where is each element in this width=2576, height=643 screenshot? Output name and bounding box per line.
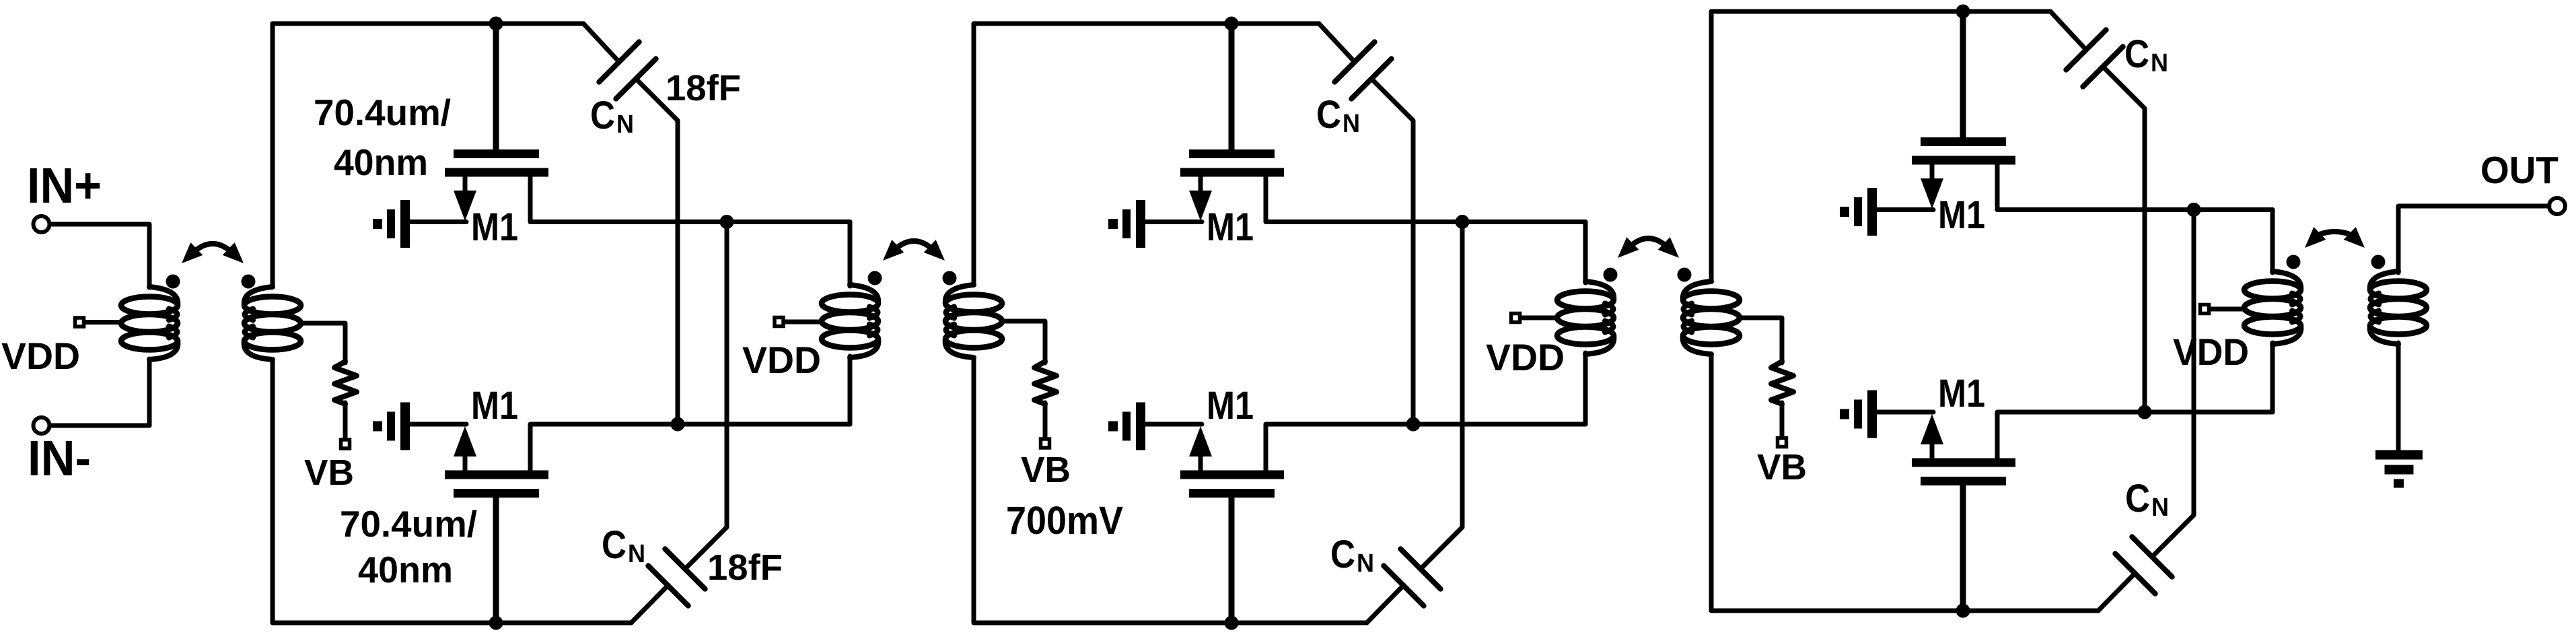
- polarity dot T1 secondary: [943, 271, 957, 285]
- coupling arrow T1: [898, 241, 930, 247]
- AC-ground bias symbol (stage 3 lower): [1840, 409, 1849, 419]
- svg-text:M1: M1: [471, 384, 518, 428]
- terminal VB (stage 3): [1778, 438, 1787, 447]
- svg-text:N: N: [1357, 549, 1374, 578]
- wire drain of M1 (stage 1 lower): [530, 424, 850, 471]
- wire T0 secondary tap to bias resistor: [301, 323, 345, 363]
- junction C_N lower to upper drain (stage 1): [720, 215, 734, 229]
- terminal VDD (T2 tap): [1511, 314, 1520, 323]
- svg-text:40nm: 40nm: [334, 141, 428, 183]
- wire stage-3 bottom gate rail: [1711, 354, 2098, 611]
- junction stage-2 bottom gate node: [1225, 616, 1239, 630]
- terminal VDD (T0 tap): [75, 318, 84, 327]
- svg-text:IN-: IN-: [28, 430, 91, 486]
- transistor M1 (stage 1 lower) source stub: [463, 454, 468, 471]
- wire source of M1 (stage 3 upper) to AC ground: [1876, 207, 1933, 212]
- polarity dot T3 primary: [2287, 255, 2301, 269]
- transistor M1 (stage 1 upper) channel bar: [445, 168, 548, 177]
- svg-text:C: C: [2125, 477, 2150, 520]
- transistor M1 (stage 3 lower) source stub: [1930, 442, 1935, 459]
- coupling arrow T0: [196, 244, 229, 250]
- wire T2 primary top lead: [1583, 222, 1588, 283]
- transformer T3 secondary winding: [2370, 281, 2427, 299]
- wire source of M1 (stage 2 upper) to AC ground: [1145, 219, 1202, 224]
- wire resistor R2 to VB terminal: [1043, 403, 1048, 438]
- svg-text:VB: VB: [304, 452, 354, 493]
- polarity dot T0 secondary: [242, 275, 256, 289]
- AC-ground bias symbol (stage 2 lower): [1108, 421, 1118, 432]
- AC-ground bias symbol (stage 1 lower): [373, 421, 382, 432]
- transistor M1 (stage 2 upper) gate bar: [1189, 149, 1275, 158]
- terminal VB (stage 2): [1041, 439, 1050, 448]
- capacitor C_N (stage 3 lower): [2098, 573, 2135, 611]
- wire resistor R3 to VB terminal: [1780, 403, 1785, 437]
- transistor M1 (stage 3 lower) channel bar: [1912, 459, 2015, 467]
- svg-text:M1: M1: [1207, 384, 1254, 428]
- transistor M1 (stage 2 upper) source stub: [1198, 175, 1203, 193]
- wire drain of M1 (stage 3 upper): [1997, 164, 2273, 210]
- wire T0 primary center tap: [85, 320, 121, 325]
- transformer T1 primary winding: [822, 295, 878, 312]
- junction stage-3 top gate node: [1956, 5, 1970, 19]
- transistor M1 (stage 1 lower) channel bar: [445, 471, 548, 479]
- resistor R3 (stage-3 gate bias): [1771, 362, 1793, 404]
- wire source of M1 (stage 1 lower) to AC ground: [409, 422, 466, 427]
- transistor M1 (stage 2 lower) gate bar: [1189, 489, 1275, 498]
- transistor M1 (stage 3 lower) gate bar: [1921, 477, 2006, 485]
- wire T3 primary top lead: [2270, 210, 2275, 273]
- svg-text:OUT: OUT: [2480, 149, 2559, 192]
- transformer T2 primary winding: [1557, 292, 1614, 309]
- svg-text:18fF: 18fF: [707, 547, 783, 588]
- svg-text:C: C: [1330, 533, 1355, 576]
- svg-text:N: N: [616, 110, 634, 139]
- svg-text:M1: M1: [1207, 205, 1254, 249]
- wire IN- to T0 primary bottom: [52, 359, 149, 426]
- transistor M1 (stage 1 upper) source stub: [463, 175, 468, 193]
- wire drain of M1 (stage 3 lower): [1997, 412, 2273, 459]
- svg-text:C: C: [602, 523, 627, 567]
- transformer T2 secondary winding: [1683, 292, 1740, 309]
- wire T1 primary bottom lead: [848, 356, 853, 424]
- AC-ground bias symbol (stage 2 upper): [1108, 219, 1118, 229]
- transistor M1 (stage 3 lower) source arrow: [1921, 414, 1943, 444]
- svg-text:C: C: [2124, 32, 2149, 76]
- wire drain of M1 (stage 1 upper): [530, 176, 850, 222]
- svg-text:VDD: VDD: [742, 339, 821, 381]
- svg-text:VDD: VDD: [2173, 331, 2249, 373]
- coupling arrow T2: [1633, 238, 1664, 244]
- polarity dot T0 primary: [166, 275, 180, 289]
- transformer T3 primary winding: [2244, 281, 2301, 299]
- wire T1 primary center tap: [785, 320, 822, 325]
- junction stage-1 bottom gate node: [489, 616, 503, 630]
- wire T2 primary center tap: [1522, 316, 1557, 320]
- transformer T0 primary winding: [121, 297, 178, 314]
- transistor M1 (stage 2 lower) channel bar: [1180, 471, 1284, 479]
- transistor M1 (stage 1 upper) source arrow: [454, 191, 476, 221]
- polarity dot T3 secondary: [2371, 255, 2386, 269]
- wire gate of M1 (stage 2 upper): [1229, 24, 1235, 150]
- transistor M1 (stage 2 lower) source arrow: [1189, 426, 1212, 456]
- svg-text:VDD: VDD: [1486, 336, 1565, 378]
- wire gate of M1 (stage 3 lower): [1960, 485, 1966, 611]
- wire T3 secondary top to OUT: [2398, 206, 2549, 273]
- svg-text:C: C: [590, 94, 615, 137]
- transistor M1 (stage 2 lower) source stub: [1198, 454, 1203, 471]
- terminal IN-: [34, 417, 50, 434]
- transistor M1 (stage 3 upper) source stub: [1930, 163, 1935, 180]
- wire stage-2 bottom gate rail: [974, 358, 1367, 623]
- terminal VDD (T1 tap): [775, 318, 783, 327]
- terminal IN+: [34, 216, 50, 232]
- svg-text:M1: M1: [1938, 193, 1985, 237]
- capacitor C_N (stage 1 upper): [583, 24, 619, 62]
- svg-text:N: N: [2151, 494, 2169, 522]
- wire drain of M1 (stage 2 lower): [1266, 424, 1585, 471]
- svg-text:M1: M1: [471, 205, 518, 249]
- coupling arrow T3: [2320, 232, 2350, 234]
- transformer T1 secondary winding: [945, 295, 1002, 312]
- svg-text:N: N: [1343, 110, 1360, 138]
- wire stage-3 top gate rail: [1711, 11, 2050, 281]
- transistor M1 (stage 3 upper) channel bar: [1912, 156, 2015, 165]
- wire T3 secondary bottom to ground: [2396, 343, 2401, 451]
- transistor M1 (stage 1 lower) gate bar: [454, 489, 539, 498]
- wire stage-1 bottom gate rail: [273, 360, 631, 623]
- transistor M1 (stage 2 upper) source arrow: [1189, 191, 1212, 221]
- wire stage-2 top gate rail: [974, 24, 1319, 285]
- junction C_N upper to lower drain (stage 2): [1406, 417, 1421, 432]
- capacitor C_N (stage 2 upper): [1319, 24, 1355, 62]
- polarity dot T2 primary: [1604, 268, 1618, 282]
- wire stage-1 top gate rail: [273, 24, 583, 287]
- polarity dot T2 secondary: [1678, 268, 1692, 282]
- wire T2 primary bottom lead: [1583, 353, 1588, 424]
- wire gate of M1 (stage 3 upper): [1960, 11, 1966, 138]
- junction C_N upper to lower drain (stage 1): [671, 417, 685, 432]
- wire source of M1 (stage 1 upper) to AC ground: [409, 219, 466, 224]
- junction C_N lower to upper drain (stage 2): [1456, 215, 1470, 229]
- capacitor C_N (stage 1 lower): [631, 585, 668, 623]
- wire gate of M1 (stage 1 upper): [493, 24, 499, 150]
- terminal VB (stage 1): [341, 440, 350, 448]
- svg-text:VB: VB: [1757, 447, 1807, 487]
- wire IN+ to T0 primary top: [52, 224, 149, 287]
- wire gate of M1 (stage 1 lower): [493, 497, 499, 623]
- junction C_N upper to lower drain (stage 3): [2138, 405, 2152, 419]
- svg-text:VB: VB: [1021, 450, 1071, 490]
- junction stage-3 bottom gate node: [1956, 604, 1970, 618]
- wire T1 secondary tap to bias resistor: [1002, 321, 1045, 363]
- wire drain of M1 (stage 2 upper): [1266, 176, 1585, 222]
- transistor M1 (stage 2 upper) channel bar: [1180, 168, 1284, 177]
- transistor M1 (stage 3 upper) gate bar: [1921, 137, 2006, 146]
- AC-ground bias symbol (stage 3 upper): [1840, 207, 1849, 217]
- wire source of M1 (stage 3 lower) to AC ground: [1876, 410, 1933, 415]
- transistor M1 (stage 3 upper) source arrow: [1921, 178, 1943, 209]
- junction stage-1 top gate node: [489, 17, 503, 31]
- wire T2 secondary tap to bias resistor: [1740, 318, 1782, 363]
- svg-text:700mV: 700mV: [1006, 499, 1123, 543]
- terminal OUT: [2549, 198, 2565, 214]
- transistor M1 (stage 1 lower) source arrow: [454, 426, 476, 456]
- terminal VDD (T3 tap): [2201, 305, 2209, 314]
- svg-text:N: N: [2151, 49, 2168, 77]
- wire T3 primary center tap: [2211, 307, 2244, 312]
- svg-text:70.4um/: 70.4um/: [340, 503, 477, 545]
- junction C_N lower to upper drain (stage 3): [2187, 203, 2201, 217]
- wire resistor R1 to VB terminal: [343, 403, 348, 438]
- ground symbol: [2375, 450, 2423, 460]
- resistor R2 (stage-2 gate bias): [1034, 362, 1057, 404]
- junction stage-2 top gate node: [1225, 17, 1239, 31]
- resistor R1 (stage-1 gate bias): [334, 362, 357, 404]
- capacitor C_N (stage 2 lower): [1367, 585, 1404, 623]
- svg-text:N: N: [628, 540, 645, 568]
- svg-text:M1: M1: [1938, 372, 1985, 415]
- AC-ground bias symbol (stage 1 upper): [373, 219, 382, 229]
- svg-text:40nm: 40nm: [358, 549, 453, 590]
- svg-text:70.4um/: 70.4um/: [314, 92, 451, 133]
- wire source of M1 (stage 2 lower) to AC ground: [1145, 422, 1202, 427]
- transformer T0 secondary winding: [244, 297, 301, 314]
- svg-text:IN+: IN+: [27, 158, 102, 213]
- svg-text:18fF: 18fF: [666, 68, 741, 108]
- svg-text:VDD: VDD: [1, 335, 80, 377]
- svg-text:C: C: [1316, 93, 1341, 137]
- transistor M1 (stage 1 upper) gate bar: [454, 149, 539, 158]
- wire T1 primary top lead: [848, 222, 853, 287]
- capacitor C_N (stage 3 upper): [2050, 11, 2086, 50]
- wire gate of M1 (stage 2 lower): [1229, 497, 1235, 623]
- polarity dot T1 primary: [868, 271, 882, 285]
- wire T3 primary bottom lead: [2270, 343, 2275, 412]
